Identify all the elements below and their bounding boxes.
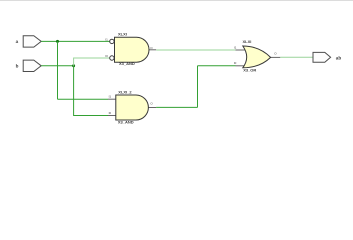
input port b bbox=[23, 60, 41, 71]
junction on net b bbox=[72, 64, 75, 67]
svg-text:I1: I1 bbox=[105, 37, 108, 41]
top window edge line bbox=[0, 0, 353, 2]
and-gate U2 input lead I0 bbox=[108, 115, 116, 117]
wire net b down branch to gate U2 input I0 bbox=[74, 66, 108, 116]
or-gate U3 output lead bbox=[271, 56, 281, 58]
or-gate U3 input lead I0 bbox=[236, 65, 247, 67]
svg-text:XLXI: XLXI bbox=[243, 39, 252, 44]
and-gate U2 output lead bbox=[148, 107, 156, 109]
and-gate U2 input lead I1 bbox=[108, 98, 116, 100]
svg-text:XLXI_2: XLXI_2 bbox=[118, 90, 132, 95]
svg-text:X3_AND: X3_AND bbox=[119, 61, 135, 66]
svg-text:I0: I0 bbox=[234, 61, 237, 65]
svg-text:X3_OR: X3_OR bbox=[243, 68, 256, 73]
wire horizontal to or-gate U3 input I0 bbox=[198, 65, 236, 67]
svg-text:I1: I1 bbox=[109, 95, 112, 99]
input port a bbox=[23, 36, 41, 47]
wire net a vertical branch bbox=[57, 41, 59, 99]
svg-text:XLXI: XLXI bbox=[118, 31, 127, 36]
wire or-gate output to output port bbox=[280, 56, 313, 58]
and-gate U1 body (AND2B2) bbox=[115, 37, 149, 62]
and-gate U1 input bubble I0 bbox=[110, 56, 114, 60]
svg-text:I0: I0 bbox=[109, 111, 112, 115]
wire U1 output to or-gate U3 input I1 bbox=[156, 49, 235, 51]
svg-text:X3_AND: X3_AND bbox=[118, 120, 134, 125]
and-gate U1 input bubble I1 bbox=[110, 39, 114, 43]
svg-text:b: b bbox=[16, 64, 19, 69]
svg-text:I1: I1 bbox=[234, 46, 237, 50]
junction on net a bbox=[56, 40, 59, 43]
wire U2 output horizontal bbox=[156, 106, 197, 108]
svg-text:ab: ab bbox=[336, 56, 342, 61]
wire net b up branch to gate U1 input I0 bbox=[74, 58, 110, 66]
wire net a horizontal to gate U1 input I1 bbox=[41, 40, 109, 42]
wire vertical up to or-gate level bbox=[197, 66, 199, 108]
wire net a to gate U2 input I1 bbox=[58, 98, 109, 100]
and-gate U2 body (AND2) bbox=[116, 95, 149, 120]
or-gate U3 input lead I1 bbox=[236, 49, 247, 51]
svg-text:a: a bbox=[16, 39, 19, 44]
svg-text:I0: I0 bbox=[105, 54, 108, 58]
or-gate U3 body (OR2) bbox=[243, 46, 271, 68]
output port ab bbox=[313, 52, 331, 62]
wire net b horizontal bbox=[41, 65, 73, 67]
and-gate U1 output lead bbox=[149, 49, 156, 51]
